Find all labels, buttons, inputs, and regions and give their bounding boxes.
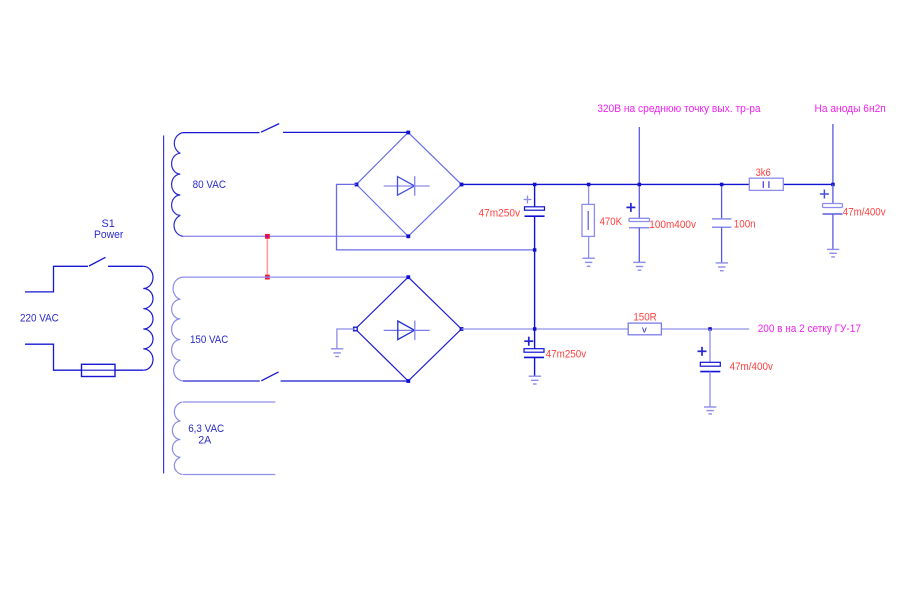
svg-text:47m250v: 47m250v <box>479 207 521 219</box>
wire switch to bridge2 AC- <box>281 380 409 382</box>
capacitor C5 47m250v <box>524 329 544 384</box>
svg-text:v: v <box>642 325 647 336</box>
wire primary bottom to fuse <box>116 369 144 371</box>
svg-text:100n: 100n <box>734 218 756 230</box>
junction R1 top <box>587 183 591 187</box>
wire 220VAC live lead + switch feed <box>25 266 88 292</box>
resistor R2 3k6 <box>749 178 783 190</box>
wire 150VAC bottom to switch <box>183 380 260 382</box>
resistor R3 150R <box>628 323 661 336</box>
wire 6.3VAC bottom <box>183 474 275 476</box>
wire fuse to 220VAC neutral lead <box>25 344 81 370</box>
svg-text:200 в на 2 сетку ГУ-17: 200 в на 2 сетку ГУ-17 <box>758 323 861 335</box>
diode symbol B1 <box>384 185 430 187</box>
wire switch to primary coil <box>108 265 143 267</box>
capacitor C4 47m/400v <box>820 184 843 257</box>
wire rail after 150R <box>661 328 749 330</box>
transformer core <box>163 136 165 474</box>
wire B1 positive rail <box>461 183 749 185</box>
wire rail after 3k6 <box>783 183 833 185</box>
red link windings junction <box>266 235 270 279</box>
junction out3 <box>708 327 712 331</box>
fuse F1 <box>81 364 115 376</box>
node B1 top <box>406 131 410 135</box>
node B1 bottom <box>406 234 410 238</box>
svg-text:На аноды 6н2п: На аноды 6н2п <box>815 103 886 115</box>
svg-text:3k6: 3k6 <box>756 167 771 179</box>
wire B2 positive rail <box>461 328 628 330</box>
wire switch to bridge1 AC+ <box>283 131 408 133</box>
resistor R1 470K <box>582 184 595 266</box>
wire B1 negative loop <box>337 184 535 250</box>
node B1 right <box>460 183 464 187</box>
bridge rectifier B1 diamond <box>356 132 461 236</box>
junction C1 top <box>533 183 537 187</box>
svg-text:47m/400v: 47m/400v <box>843 207 886 219</box>
wire 80VAC bottom to bridge1 AC- <box>183 235 408 237</box>
ground B2 <box>331 349 343 357</box>
wire output 320V <box>638 127 640 184</box>
bridge rectifier B2 diamond <box>355 277 461 381</box>
wire link C1neg to bottom rail <box>534 250 536 329</box>
svg-text:6,3 VAC: 6,3 VAC <box>188 423 224 435</box>
svg-text:47m250v: 47m250v <box>546 349 587 361</box>
junction C2 rail <box>638 183 642 187</box>
switch blade 80VAC <box>261 124 279 133</box>
svg-text:80 VAC: 80 VAC <box>193 179 226 191</box>
capacitor C2 100m400v <box>626 184 649 270</box>
BRIDGE 2 (bottom) <box>354 275 464 383</box>
junction bottom rail C5 <box>533 327 537 331</box>
capacitor C6 47m/400v <box>698 329 721 414</box>
svg-text:150R: 150R <box>633 311 656 323</box>
junction neg rail <box>533 248 537 252</box>
wire 150VAC top to bridge2 AC+ <box>183 276 408 278</box>
node B1 left <box>355 183 359 187</box>
diode symbol B2 <box>384 329 430 331</box>
winding 150 VAC <box>172 277 183 381</box>
switch S1 blade <box>89 257 106 266</box>
winding 80 VAC <box>172 133 183 237</box>
BRIDGE 1 (top) <box>355 131 464 239</box>
svg-text:47m/400v: 47m/400v <box>730 361 774 373</box>
node B2 bottom <box>406 379 410 383</box>
node B2 right <box>460 327 464 331</box>
wire 6.3VAC top <box>183 401 275 403</box>
wire output anodes <box>832 124 834 184</box>
svg-text:2A: 2A <box>198 434 212 446</box>
switch blade 150VAC <box>261 372 278 381</box>
winding 6.3 VAC <box>172 402 182 475</box>
junction out2 <box>831 183 835 187</box>
svg-text:220 VAC: 220 VAC <box>20 312 59 324</box>
svg-text:Power: Power <box>94 229 124 241</box>
capacitor C3 100n <box>712 184 731 270</box>
junction C3 rail <box>720 183 724 187</box>
wire 80VAC top to switch <box>183 132 260 134</box>
primary winding <box>143 266 153 370</box>
svg-text:100m400v: 100m400v <box>649 219 696 231</box>
svg-text:470K: 470K <box>600 216 623 228</box>
capacitor C1 47m250v <box>524 184 545 250</box>
node B2 left <box>354 327 358 331</box>
svg-text:320В на среднюю точку вых. тр-: 320В на среднюю точку вых. тр-ра <box>597 103 761 115</box>
svg-text:150 VAC: 150 VAC <box>190 334 228 346</box>
node B2 top <box>406 275 410 279</box>
wire B2 to ground <box>337 329 355 349</box>
